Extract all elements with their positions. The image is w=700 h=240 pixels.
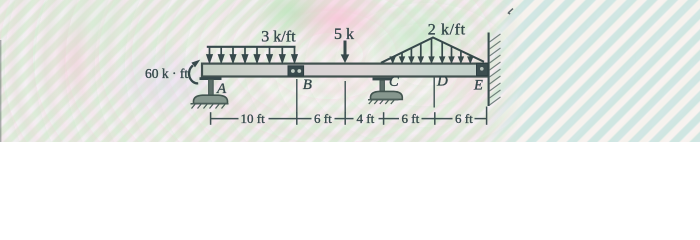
label 2 k/ft <box>428 21 466 38</box>
support A base <box>194 95 228 103</box>
svg-text:60 k · ft: 60 k · ft <box>145 66 188 81</box>
support A ground hatching <box>191 104 229 109</box>
svg-text:5 k: 5 k <box>334 26 354 43</box>
svg-text:D: D <box>436 73 448 89</box>
label 60 k·ft <box>145 66 188 81</box>
distributed load 3 k/ft arrows <box>207 47 298 63</box>
distributed load 3 k/ft top line <box>207 46 296 48</box>
point load 5 k arrow <box>341 41 350 64</box>
cursor mark top right <box>508 9 513 14</box>
dimension label 6 ft (C to D) <box>402 111 420 126</box>
support C base <box>371 91 403 99</box>
triangular load arrows <box>390 39 473 63</box>
svg-text:10 ft: 10 ft <box>241 111 266 126</box>
wall hatching at E <box>490 34 501 105</box>
svg-text:4 ft: 4 ft <box>357 111 375 126</box>
dimension ticks <box>211 107 487 125</box>
label C <box>389 74 399 90</box>
dimension label 10 ft <box>241 111 266 126</box>
beam AE <box>202 64 487 77</box>
support A post <box>209 80 214 96</box>
svg-text:2 k/ft: 2 k/ft <box>428 21 466 38</box>
wall support at E <box>488 33 490 107</box>
svg-text:E: E <box>473 77 483 93</box>
svg-text:3 k/ft: 3 k/ft <box>261 28 296 45</box>
label B <box>303 77 312 93</box>
svg-text:B: B <box>303 77 312 93</box>
label 5 k <box>334 26 354 43</box>
svg-text:6 ft: 6 ft <box>455 111 473 126</box>
label D <box>436 73 448 89</box>
dimension line segments <box>211 118 487 120</box>
hinge B <box>288 66 304 76</box>
support C plate <box>373 78 393 81</box>
extension line below 5 k <box>344 81 346 113</box>
beam end plate at E <box>477 63 489 75</box>
support C post <box>380 80 384 92</box>
support A plate <box>200 77 222 80</box>
support C ground hatching <box>368 100 399 104</box>
dimension label 6 ft (D to E) <box>455 111 473 126</box>
svg-text:6 ft: 6 ft <box>314 111 332 126</box>
extension line below B <box>296 79 298 113</box>
dimension label 4 ft <box>357 111 375 126</box>
extension line below D <box>433 78 435 108</box>
left screen edge line <box>0 40 2 142</box>
svg-text:6 ft: 6 ft <box>402 111 420 126</box>
moment 60 k·ft arrow at A <box>189 60 200 84</box>
label A <box>216 81 227 97</box>
svg-text:A: A <box>216 81 227 97</box>
label E <box>473 77 483 93</box>
dimension label 6 ft (B to 5k) <box>314 111 332 126</box>
triangular load outline <box>381 38 484 63</box>
label 3 k/ft <box>261 28 296 45</box>
svg-text:C: C <box>389 74 399 90</box>
